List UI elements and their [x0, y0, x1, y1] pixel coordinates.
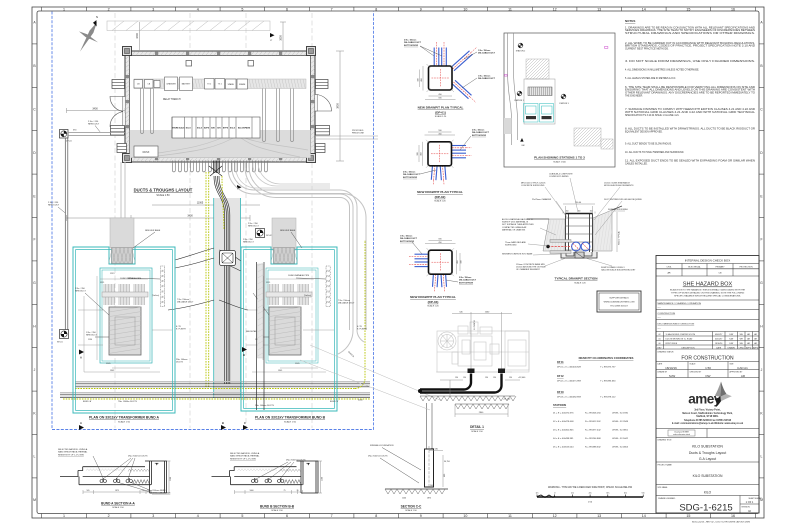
- svg-text:2 No. 150mm: 2 No. 150mm: [459, 277, 472, 279]
- transformer bund A outline: [73, 247, 175, 413]
- svg-text:4: 4: [197, 514, 199, 518]
- svg-text:01 = E = 400470.376: 01 = E = 400470.376: [553, 412, 574, 414]
- section arrows bottom on boundary: [221, 425, 226, 430]
- svg-text:CABLES INSTALLED.: CABLES INSTALLED.: [625, 163, 648, 166]
- svg-text:1 No. 150mm: 1 No. 150mm: [478, 50, 491, 52]
- dimension 3900 right of building: [336, 51, 344, 161]
- svg-text:DW: DW: [706, 374, 711, 378]
- svg-text:450: 450: [438, 242, 441, 244]
- svg-text:DRAW PIT CO-ORDINATES COORDINA: DRAW PIT CO-ORDINATES COORDINATES: [579, 356, 634, 360]
- svg-text:02: 02: [658, 334, 660, 336]
- svg-text:1 OF 1: 1 OF 1: [746, 501, 754, 504]
- station 3: [561, 94, 566, 99]
- svg-text:1 No. 150mm: 1 No. 150mm: [400, 236, 413, 238]
- svg-text:14: 14: [642, 514, 646, 518]
- SP-01 symbol: [60, 330, 69, 339]
- svg-text:E. PLINTH: E. PLINTH: [474, 320, 476, 330]
- svg-text:N = 991306.250: N = 991306.250: [585, 412, 601, 414]
- svg-text:DUCTS SHOWN ON 7a. ROAD: DUCTS SHOWN ON 7a. ROAD: [666, 338, 693, 341]
- svg-text:STATION 3: STATION 3: [559, 102, 569, 105]
- svg-text:1. DRAWINGS ARE TO BE READ IN: 1. DRAWINGS ARE TO BE READ IN CONJUNCTIO…: [625, 26, 755, 29]
- svg-text:BOTTOM ROW: BOTTOM ROW: [404, 45, 418, 47]
- svg-text:9: 9: [420, 7, 422, 11]
- svg-text:600: 600: [444, 474, 446, 477]
- svg-text:300: 300: [418, 78, 420, 81]
- svg-text:DRAWN: DRAWN: [728, 346, 736, 349]
- svg-text:130: 130: [509, 377, 512, 379]
- svg-text:3400: 3400: [136, 33, 139, 39]
- svg-text:AS DUG MATERIAL BACKFILL TO: AS DUG MATERIAL BACKFILL TO: [502, 218, 534, 221]
- svg-text:05 = E = 400523.044: 05 = E = 400523.044: [553, 446, 574, 448]
- svg-text:1200: 1200: [402, 498, 406, 500]
- svg-text:CURRENT 'BEST PRACTICE' METHOD: CURRENT 'BEST PRACTICE' METHODS.: [625, 48, 669, 51]
- svg-text:SCALE 1:50: SCALE 1:50: [112, 506, 124, 509]
- svg-text:8. ALL DUCTS TO BE INSTALLED: 8. ALL DUCTS TO BE INSTALLED WITH DRAWST…: [625, 128, 755, 131]
- svg-text:SJW: SJW: [669, 374, 676, 378]
- svg-text:CHARGER: CHARGER: [166, 83, 176, 86]
- transformer bund B outline: [241, 247, 337, 411]
- svg-text:FENCE LINE: FENCE LINE: [352, 133, 364, 135]
- svg-text:LEVEL: 32.3851: LEVEL: 32.3851: [612, 429, 629, 431]
- svg-text:B: B: [243, 353, 245, 357]
- transformer B radiators: [268, 284, 309, 305]
- svg-text:7. SURFACE FINISHES TO COMPLY: 7. SURFACE FINISHES TO COMPLY WITH SEEMI…: [625, 108, 755, 111]
- bund B inner annotation ticks: [246, 276, 334, 372]
- svg-text:1345: 1345: [110, 370, 114, 372]
- bund A inner annotation ticks: [78, 276, 172, 372]
- svg-text:COVER B125 RATED: COVER B125 RATED: [549, 175, 569, 178]
- svg-text:2: 2: [108, 7, 110, 11]
- section arrow A bottom: [79, 425, 84, 430]
- svg-text:01: 01: [658, 339, 660, 341]
- bund A duct bank: [161, 266, 165, 270]
- trough into bund A notch: [110, 218, 134, 248]
- duct run DP-01 down to SP-01: [65, 138, 68, 330]
- DP-02 pit on plan: [256, 229, 265, 238]
- svg-text:DUCT ENTRIES DRILLED AS REQUIR: DUCT ENTRIES DRILLED AS REQUIRED: [604, 198, 643, 201]
- svg-text:MODULA BOX4000 SEGMENTS: MODULA BOX4000 SEGMENTS: [604, 184, 634, 187]
- svg-text:E-mail: communications@amey.co: E-mail: communications@amey.co.uk Websit…: [672, 422, 744, 425]
- wall louvres: [112, 80, 125, 89]
- svg-text:DETAIL 1: DETAIL 1: [470, 425, 484, 429]
- cable tray corridor band: [134, 79, 306, 89]
- svg-text:SAND WHICH HAS A THERMAL: SAND WHICH HAS A THERMAL: [58, 451, 88, 454]
- svg-text:1m: 1m: [535, 493, 538, 495]
- svg-text:5m: 5m: [642, 493, 645, 495]
- svg-text:DIA CABLE DUCT: DIA CABLE DUCT: [338, 302, 355, 305]
- svg-text:SERVICES DRAWINGS. THE SITE TE: SERVICES DRAWINGS. THE SITE TEAM TO NOTI…: [625, 29, 755, 32]
- svg-text:03 = E = 400402.845: 03 = E = 400402.845: [553, 429, 574, 431]
- svg-text:1515: 1515: [266, 282, 270, 284]
- svg-text:150mm CUBIS STAKKABOX: 150mm CUBIS STAKKABOX: [604, 182, 631, 185]
- svg-text:CONSTRUCTION: CONSTRUCTION: [658, 313, 676, 315]
- svg-text:(DP-01): (DP-01): [435, 110, 446, 114]
- svg-text:NEW KER BASE: NEW KER BASE: [280, 229, 296, 232]
- double door left: [110, 97, 125, 127]
- svg-text:11: 11: [508, 7, 512, 11]
- svg-text:8: 8: [375, 7, 377, 11]
- revision table: [664, 332, 753, 350]
- svg-text:N = 991412.302: N = 991412.302: [585, 421, 601, 423]
- station 1: [517, 91, 522, 96]
- svg-text:DUCTS: DUCTS: [176, 362, 184, 364]
- svg-text:M: M: [33, 498, 36, 502]
- svg-text:2No.#100mm DUCTS: 2No.#100mm DUCTS: [286, 460, 306, 462]
- svg-text:BRITISH STANDARDS, CODES OF PR: BRITISH STANDARDS, CODES OF PRACTICE, PR…: [625, 45, 755, 48]
- svg-text:SP-01: SP-01: [57, 342, 63, 344]
- svg-text:75: 75: [284, 490, 286, 492]
- svg-text:THE ENGINEER.: THE ENGINEER.: [625, 96, 643, 98]
- svg-text:SPECIFICATION TS 3.10.04 ISSUE: SPECIFICATION TS 3.10.04 ISSUE 1 CLAUSE …: [625, 114, 680, 117]
- bund B inner plinth outline: [266, 268, 318, 363]
- svg-text:+32,400: +32,400: [518, 377, 526, 379]
- svg-text:150: 150: [590, 211, 593, 213]
- svg-text:3: 3: [152, 7, 154, 11]
- svg-text:MAINTENANCE / CLEANING / OPERA: MAINTENANCE / CLEANING / OPERATION: [658, 302, 702, 305]
- svg-text:AR: AR: [667, 272, 670, 275]
- svg-text:1 No. 150mm: 1 No. 150mm: [478, 76, 491, 78]
- svg-text:E2LS/SPARE: E2LS/SPARE: [238, 127, 251, 130]
- svg-text:(DP-03): (DP-03): [428, 300, 439, 304]
- sump: [575, 252, 584, 258]
- svg-text:DP 03: DP 03: [557, 391, 564, 394]
- svg-text:150mm AROUND THE OUTSIDE: 150mm AROUND THE OUTSIDE: [516, 266, 546, 269]
- duct circles: [572, 242, 581, 251]
- svg-text:(Vis/hm): (Vis/hm): [304, 295, 311, 297]
- svg-text:130: 130: [463, 377, 466, 379]
- svg-text:1m: 1m: [571, 493, 574, 495]
- svg-text:OPTIC CABLE DUCT: OPTIC CABLE DUCT: [152, 492, 171, 495]
- svg-text:BUND 'B': BUND 'B': [330, 401, 339, 403]
- svg-text:450: 450: [438, 94, 441, 96]
- svg-text:N: N: [96, 15, 98, 19]
- svg-text:DRAWING TITLE: DRAWING TITLE: [658, 439, 673, 442]
- svg-text:DIA CABLE DUCT: DIA CABLE DUCT: [403, 173, 421, 176]
- svg-text:15: 15: [686, 7, 690, 11]
- supplier details box: [597, 291, 641, 312]
- svg-text:SCALE 1:50: SCALE 1:50: [271, 509, 283, 512]
- svg-text:7: 7: [331, 7, 333, 11]
- svg-text:130: 130: [485, 377, 488, 379]
- svg-text:E. PLINTH: E. PLINTH: [176, 329, 186, 331]
- svg-text:1: 1: [63, 514, 65, 518]
- svg-text:PROJECT NAME:: PROJECT NAME:: [658, 464, 673, 467]
- svg-text:1100: 1100: [322, 477, 324, 481]
- svg-text:PLAN ON 33/11kV TRANSFORMER BU: PLAN ON 33/11kV TRANSFORMER BUND A: [89, 416, 160, 420]
- svg-text:E1LS: E1LS: [197, 128, 203, 130]
- svg-text:2m: 2m: [589, 493, 592, 495]
- svg-text:OF CHAMBER SEGMENT: OF CHAMBER SEGMENT: [516, 268, 541, 271]
- svg-text:SDG-1-6215 - REV 02 - DUCT: SDG-1-6215 - REV 02 - DUCT & TROUGHS LAY…: [692, 520, 751, 523]
- svg-text:3400: 3400: [187, 215, 193, 218]
- svg-text:RESISTIVITY OF 1.2°C M/W: RESISTIVITY OF 1.2°C M/W: [230, 458, 256, 460]
- svg-text:SITE NAME:: SITE NAME:: [658, 486, 669, 489]
- svg-text:DP-02: DP-02: [266, 235, 273, 237]
- svg-text:DUCTS & TROUGHS LAYOUT: DUCTS & TROUGHS LAYOUT: [134, 188, 193, 193]
- svg-text:ENSURING THAT ALL DIMENSIONS A: ENSURING THAT ALL DIMENSIONS AND LEVELS …: [625, 89, 755, 92]
- svg-text:TYPICAL DRAWPIT SECTION: TYPICAL DRAWPIT SECTION: [555, 277, 599, 281]
- svg-text:FOR CONSTRUCTION: FOR CONSTRUCTION: [681, 355, 734, 361]
- svg-text:15: 15: [686, 514, 690, 518]
- transformer B body: [269, 307, 301, 355]
- svg-text:1875: 1875: [427, 498, 431, 500]
- svg-text:2 No. 150mm: 2 No. 150mm: [403, 172, 416, 174]
- svg-text:C: C: [244, 421, 246, 425]
- svg-text:5: 5: [241, 514, 243, 518]
- svg-text:DIA CABLE DUCT: DIA CABLE DUCT: [404, 41, 422, 44]
- svg-text:200: 200: [430, 485, 433, 487]
- svg-text:Ducts & Troughs Layout: Ducts & Troughs Layout: [689, 451, 726, 455]
- svg-text:TX 2: TX 2: [207, 84, 211, 86]
- svg-text:DP-01: DP-01: [66, 141, 73, 143]
- svg-text:WITH NATIONAL GRID CLAUSES 4.2: WITH NATIONAL GRID CLAUSES 4.21 AND 4.22…: [625, 111, 756, 114]
- svg-text:04 = E = 400498.381: 04 = E = 400498.381: [553, 438, 574, 440]
- svg-text:16: 16: [731, 7, 735, 11]
- svg-text:13: 13: [597, 7, 601, 11]
- svg-text:130: 130: [493, 377, 496, 379]
- svg-text:300: 300: [461, 260, 463, 263]
- main cable bundle exit: [209, 161, 222, 177]
- svg-text:SJW: SJW: [729, 334, 733, 336]
- direction arrow markers: [270, 33, 275, 37]
- bund B leaders: [253, 278, 326, 337]
- svg-text:3: 3: [152, 514, 154, 518]
- svg-text:EQUIVALENT DESIGN APPROVED.: EQUIVALENT DESIGN APPROVED.: [625, 131, 663, 134]
- svg-text:Stafford, ST18 0WG.: Stafford, ST18 0WG.: [696, 415, 719, 418]
- door right: [315, 95, 332, 112]
- svg-text:2 No. 150mm: 2 No. 150mm: [404, 40, 417, 42]
- svg-text:DESCRIPTION: DESCRIPTION: [682, 347, 696, 349]
- svg-text:STATION 1: STATION 1: [514, 99, 524, 102]
- svg-text:NEW DUCT: NEW DUCT: [243, 242, 255, 244]
- svg-text:18/10/16: 18/10/16: [715, 343, 722, 345]
- wall pier ticks: [155, 52, 158, 55]
- title block frame: [656, 256, 759, 514]
- svg-text:DRAWING STATUS: DRAWING STATUS: [658, 350, 675, 353]
- svg-text:E2PE: E2PE: [204, 128, 210, 130]
- bund B duct bank: [326, 266, 330, 270]
- svg-text:CIVIL: CIVIL: [666, 266, 672, 268]
- svg-text:300: 300: [417, 152, 419, 155]
- gray trough sweeps from building: [236, 163, 330, 188]
- svg-text:SUPPLIER DETAILS: SUPPLIER DETAILS: [609, 297, 629, 300]
- svg-text:FIRST ISSUE: FIRST ISSUE: [666, 343, 678, 345]
- svg-text:SIDES IF DUG MATERIAL IS: SIDES IF DUG MATERIAL IS: [502, 221, 529, 224]
- svg-text:DP 01: DP 01: [557, 361, 564, 364]
- svg-text:12: 12: [553, 514, 557, 518]
- svg-text:ELECTRICAL: ELECTRICAL: [688, 265, 701, 268]
- svg-text:16: 16: [731, 514, 735, 518]
- svg-text:4. ALL DIMENSIONS IN MILLIMET: 4. ALL DIMENSIONS IN MILLIMETRES UNLESS …: [625, 69, 700, 72]
- svg-text:N = 991388.632: N = 991388.632: [585, 446, 601, 448]
- svg-text:WWW.CUBISINDUSTRIES.COM: WWW.CUBISINDUSTRIES.COM: [604, 302, 635, 304]
- svg-text:REVISION:: REVISION:: [742, 506, 751, 508]
- svg-text:NEW DRAWPIT PLAN TYPICAL: NEW DRAWPIT PLAN TYPICAL: [418, 106, 464, 110]
- drawpit detail DP-01: [434, 48, 439, 67]
- dims: [563, 204, 595, 214]
- svg-text:2No. 100mm DUCTS: 2No. 100mm DUCTS: [255, 405, 275, 407]
- svg-text:6: 6: [286, 7, 288, 11]
- svg-text:NEW DRAWPIT PLAN TYPICAL: NEW DRAWPIT PLAN TYPICAL: [417, 190, 463, 194]
- svg-text:DCSX: DCSX: [143, 151, 150, 154]
- svg-text:WARNING:- THIS MAY BE A REDUCE: WARNING:- THIS MAY BE A REDUCED SIZE PRI…: [548, 486, 633, 489]
- svg-text:SDG-1-6215: SDG-1-6215: [679, 503, 732, 514]
- svg-text:3m: 3m: [606, 493, 609, 495]
- svg-text:7No. 150Mm DUCTS: 7No. 150Mm DUCTS: [118, 401, 138, 403]
- svg-text:450: 450: [421, 78, 423, 81]
- equipment boxes row (CB / CHARGER / BATTERY / TX / SPARE): [134, 80, 143, 89]
- svg-text:MATERIAL OR LEAN MIX: MATERIAL OR LEAN MIX: [502, 228, 526, 231]
- svg-text:Y = 991378.122: Y = 991378.122: [600, 396, 616, 398]
- svg-text:DIA CABLE DUCT: DIA CABLE DUCT: [400, 237, 418, 240]
- svg-text:5: 5: [241, 7, 243, 11]
- svg-text:10: 10: [463, 7, 467, 11]
- svg-text:BOTTOM ROW: BOTTOM ROW: [472, 135, 486, 137]
- svg-text:LEVEL: 32.5442: LEVEL: 32.5442: [612, 438, 629, 440]
- svg-text:1515: 1515: [100, 282, 104, 284]
- svg-text:30,750: 30,750: [444, 461, 450, 463]
- svg-text:1100: 1100: [170, 477, 172, 481]
- firewall section C-C: [427, 403, 433, 449]
- svg-text:SEGMENT DIMPLES INTO BASE: SEGMENT DIMPLES INTO BASE: [502, 253, 533, 256]
- svg-text:LEVEL: 32.2948: LEVEL: 32.2948: [612, 421, 629, 423]
- svg-text:TYPES OF WORKS DETAILED ON THI: TYPES OF WORKS DETAILED ON THIS DRAWING,…: [671, 291, 745, 294]
- svg-text:LEVEL: 32.1930: LEVEL: 32.1930: [612, 412, 629, 414]
- svg-text:FIREWALL FOUNDATION: FIREWALL FOUNDATION: [370, 444, 394, 447]
- svg-text:10. ALL DUCTS TO HAVE 75MM BED: 10. ALL DUCTS TO HAVE 75MM BED AND SURRO…: [625, 151, 684, 154]
- firewall wall in plan: [257, 262, 265, 410]
- bund B section profile: [212, 461, 324, 494]
- svg-text:3400: 3400: [92, 108, 98, 111]
- svg-text:N = 991377.442: N = 991377.442: [585, 429, 601, 431]
- svg-text:11: 11: [508, 514, 512, 518]
- svg-text:A: A: [80, 356, 82, 360]
- duct curves into bunds: [168, 248, 248, 310]
- svg-text:CAD A1: CAD A1: [737, 366, 748, 370]
- svg-text:BATTERY: BATTERY: [182, 83, 191, 86]
- svg-text:SCALE 1:50: SCALE 1:50: [405, 509, 417, 512]
- svg-text:PLAN SHOWING STATIONS 1 TO 3: PLAN SHOWING STATIONS 1 TO 3: [534, 155, 585, 159]
- svg-text:3000: 3000: [280, 35, 283, 41]
- svg-text:75: 75: [297, 490, 299, 492]
- svg-text:G.A Layout: G.A Layout: [699, 457, 716, 461]
- svg-text:2 No. 150mm: 2 No. 150mm: [472, 130, 485, 132]
- svg-text:STATION 2: STATION 2: [516, 50, 526, 53]
- svg-text:590: 590: [438, 239, 441, 241]
- labelled switchgear cells row: [172, 117, 260, 138]
- svg-text:LEVEL: 32.4804: LEVEL: 32.4804: [612, 446, 629, 448]
- svg-text:CUBIS AK-5 COMPOSITE: CUBIS AK-5 COMPOSITE: [549, 173, 573, 176]
- DCSX box: [134, 146, 158, 157]
- svg-text:SCALE: SCALE: [690, 362, 697, 365]
- svg-text:DP 02: DP 02: [557, 375, 564, 378]
- svg-text:1060: 1060: [250, 490, 254, 492]
- svg-text:02/01/17: 02/01/17: [715, 339, 722, 341]
- bund A leaders: [85, 278, 161, 337]
- svg-text:1:50: 1:50: [705, 366, 711, 370]
- svg-text:SPARE: SPARE: [228, 83, 235, 86]
- dims detail 1: [440, 312, 520, 417]
- stations location plan box: [504, 33, 615, 167]
- svg-text:GALLON BLACK BUILDERS BUCKET: GALLON BLACK BUILDERS BUCKET: [601, 269, 636, 272]
- svg-text:100M DRAINAGE PIPE: 100M DRAINAGE PIPE: [120, 277, 142, 280]
- svg-text:1: 1: [63, 7, 65, 11]
- svg-text:00: 00: [658, 343, 660, 345]
- svg-text:14: 14: [642, 7, 646, 11]
- svg-text:DP.01 = X = 400400.828: DP.01 = X = 400400.828: [557, 366, 582, 368]
- svg-text:02 = E = 400478.408: 02 = E = 400478.408: [553, 421, 574, 423]
- svg-text:PRIMARY: PRIMARY: [715, 265, 725, 268]
- svg-text:1345: 1345: [278, 370, 282, 372]
- svg-text:SCALE 1:50: SCALE 1:50: [118, 420, 131, 423]
- svg-text:2: 2: [108, 514, 110, 518]
- svg-text:F: F: [33, 238, 35, 242]
- svg-text:BOTTOM ROW: BOTTOM ROW: [459, 282, 473, 284]
- faint survey grid dashed verticals: [115, 13, 312, 428]
- svg-text:SELECTED BACKFILL USING A: SELECTED BACKFILL USING A: [58, 448, 88, 451]
- svg-text:DRAWING NUMBER:: DRAWING NUMBER:: [658, 497, 676, 500]
- svg-text:DIA CABLE DUCT: DIA CABLE DUCT: [459, 279, 477, 282]
- drawpit DP-01 on plan: [60, 130, 69, 139]
- svg-text:SPARE EALS: SPARE EALS: [172, 127, 185, 130]
- svg-text:(Vis/hm): (Vis/hm): [152, 295, 159, 297]
- station 2: [518, 43, 523, 48]
- svg-text:NEW DUCT: NEW DUCT: [48, 205, 60, 207]
- svg-text:DRAWN BY: DRAWN BY: [658, 370, 668, 373]
- svg-text:NOT SUITABLE THEN APPROVED: NOT SUITABLE THEN APPROVED: [502, 223, 534, 226]
- svg-text:SJW: SJW: [729, 339, 733, 341]
- svg-text:DATE: DATE: [716, 346, 722, 349]
- svg-text:13: 13: [597, 514, 601, 518]
- svg-text:CHKD: CHKD: [739, 347, 745, 349]
- svg-text:CONCRETE SURROUND: CONCRETE SURROUND: [521, 185, 545, 187]
- svg-text:PLAN ON 33/11kV TRANSFORMER BU: PLAN ON 33/11kV TRANSFORMER BUND B: [255, 416, 326, 420]
- svg-text:3. DO NOT SCALE FROM DRAWINGS: 3. DO NOT SCALE FROM DRAWINGS, USE ONLY …: [625, 60, 756, 63]
- svg-text:3900: 3900: [337, 103, 340, 109]
- svg-text:+31,100: +31,100: [503, 399, 511, 401]
- svg-text:8: 8: [375, 514, 377, 518]
- svg-text:Y = 991375.737: Y = 991375.737: [600, 366, 616, 368]
- svg-text:9: 9: [420, 514, 422, 518]
- svg-text:F: F: [760, 238, 762, 242]
- relay trench channels: [141, 89, 294, 142]
- svg-text:590: 590: [438, 130, 441, 132]
- svg-text:BUND B SECTION B-B: BUND B SECTION B-B: [260, 505, 295, 509]
- road: [508, 33, 518, 145]
- svg-text:DECOMMISSIONING / DEMOLITION: DECOMMISSIONING / DEMOLITION: [658, 323, 695, 325]
- svg-text:NEW KER BASE: NEW KER BASE: [145, 229, 161, 232]
- svg-text:KILO SUBSTATION: KILO SUBSTATION: [693, 474, 723, 478]
- svg-text:140 130: 140 130: [431, 449, 438, 451]
- svg-text:590: 590: [438, 98, 441, 100]
- svg-text:STRUCTURAL DRAWINGS AND SPECIF: STRUCTURAL DRAWINGS AND SPECIFICATIONS O…: [625, 32, 756, 35]
- site outline with building and bunds: [524, 79, 555, 124]
- svg-text:12: 12: [553, 7, 557, 11]
- svg-text:18/10/16: 18/10/16: [665, 366, 677, 370]
- svg-text:9. ALL DUCT BENDS TO BE SLOW: 9. ALL DUCT BENDS TO BE SLOW RADIUS.: [625, 143, 672, 146]
- svg-text:B/B: B/B: [211, 128, 215, 130]
- svg-text:150: 150: [566, 211, 569, 213]
- svg-text:N = 991244.868: N = 991244.868: [585, 438, 601, 440]
- svg-text:SUBSTATION FINISH: SUBSTATION FINISH: [608, 208, 628, 211]
- svg-text:BOTTOM ROW: BOTTOM ROW: [400, 241, 414, 243]
- BS8888 box: [706, 429, 708, 438]
- svg-text:(DP-02): (DP-02): [435, 195, 446, 199]
- svg-text:SCALE 1:20: SCALE 1:20: [434, 200, 446, 203]
- svg-text:ETPE: ETPE: [223, 128, 229, 130]
- svg-text:L: L: [34, 455, 36, 459]
- svg-text:E1LS: E1LS: [186, 128, 192, 130]
